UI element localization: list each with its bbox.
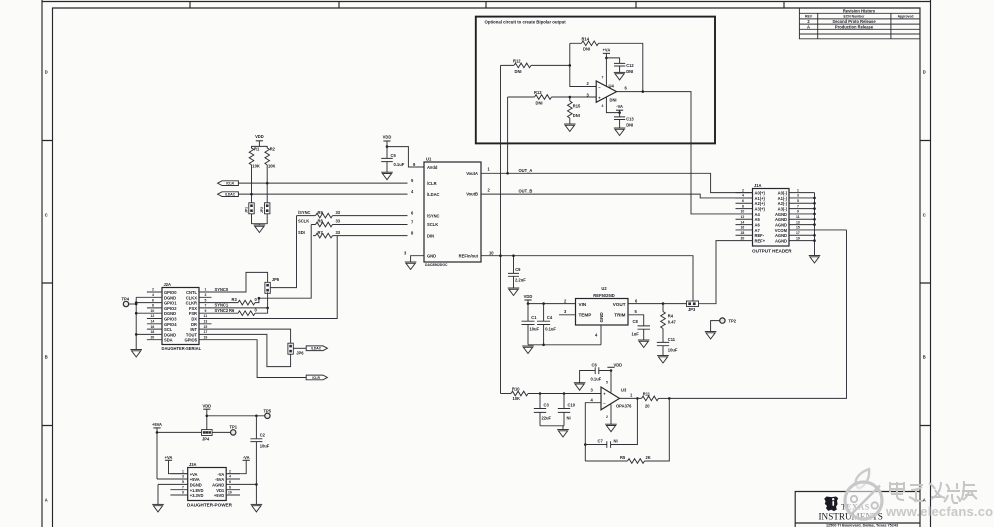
wire JP3 to REF+ pin20 — [699, 241, 736, 304]
junction feedback output — [642, 90, 645, 93]
resistor R9 33 — [297, 210, 408, 218]
svg-text:DNI: DNI — [583, 47, 590, 52]
svg-text:VIN: VIN — [579, 302, 587, 307]
svg-text:20: 20 — [741, 236, 745, 240]
svg-text:REF5025ID: REF5025ID — [593, 293, 614, 298]
svg-text:10: 10 — [741, 210, 745, 214]
svg-text:5: 5 — [797, 199, 799, 203]
ground below C1 — [522, 346, 534, 354]
svg-text:5: 5 — [182, 480, 184, 484]
svg-text:15: 15 — [204, 325, 208, 329]
svg-text:2: 2 — [606, 415, 608, 419]
svg-text:A: A — [807, 24, 810, 29]
svg-text:16: 16 — [741, 226, 745, 230]
svg-text:JP3: JP3 — [688, 307, 696, 312]
svg-text:A7: A7 — [755, 228, 761, 233]
resistor R6 0 — [212, 308, 268, 316]
svg-text:R12: R12 — [513, 59, 521, 64]
wire R13 riser down to OUT_A — [507, 97, 509, 173]
J1A left pin labels — [755, 191, 766, 244]
U3 inverting feedback riser — [585, 403, 601, 461]
svg-text:TP1: TP1 — [230, 424, 238, 429]
svg-text:A4: A4 — [755, 212, 761, 217]
wire VDD branch to U1 AVdd pin 9 — [387, 147, 424, 167]
J3A right pin stubs — [226, 474, 256, 495]
svg-text:4: 4 — [229, 475, 231, 479]
svg-text:14: 14 — [151, 320, 155, 324]
svg-text:33: 33 — [336, 219, 341, 224]
junction R12 inverting node — [569, 64, 572, 67]
svg-text:+VA: +VA — [190, 472, 198, 477]
wire inverting node riser — [570, 43, 596, 86]
resistor R5 2K feedback — [585, 398, 669, 463]
svg-text:C5: C5 — [391, 153, 397, 158]
svg-text:8: 8 — [742, 204, 744, 208]
junction VDD / C5 — [386, 145, 389, 148]
svg-text:10uF: 10uF — [668, 348, 678, 353]
U2 pin numbers — [564, 298, 638, 337]
svg-text:-VA: -VA — [243, 455, 250, 460]
resistor R2 — [265, 147, 276, 169]
svg-text:A0(+): A0(+) — [755, 191, 766, 196]
net flag /CLR (output) — [306, 375, 327, 380]
header J2A DAUGHTER-SERIAL body — [162, 282, 202, 351]
svg-text:/LDAC: /LDAC — [225, 193, 236, 197]
resistor R15 DNI to ground — [568, 97, 582, 124]
test point TP1 — [230, 424, 238, 435]
junction R11 R5 — [668, 397, 671, 400]
output header J1A body — [752, 183, 792, 254]
J2A DGND bus — [135, 297, 137, 349]
svg-text:R5: R5 — [620, 455, 626, 460]
svg-text:3: 3 — [182, 475, 184, 479]
ground below R15 — [564, 124, 576, 132]
svg-text:10K: 10K — [252, 163, 260, 168]
wire R12 riser down to REFin and R10 — [500, 65, 502, 393]
svg-text:/LDAC: /LDAC — [311, 347, 322, 351]
wire /CLR flag to U1 pin5 — [238, 182, 407, 184]
svg-text:J2A: J2A — [164, 282, 172, 287]
svg-text:16: 16 — [151, 325, 155, 329]
junction +5VA JP4 — [156, 431, 159, 434]
svg-text:+1.8VD: +1.8VD — [190, 488, 204, 493]
svg-text:OUTPUT HEADER: OUTPUT HEADER — [752, 249, 792, 254]
svg-text:2: 2 — [742, 188, 744, 192]
svg-text:REFin/out: REFin/out — [459, 253, 479, 258]
svg-text:FSR: FSR — [189, 311, 197, 316]
svg-text:10uF: 10uF — [260, 444, 270, 449]
header J3A DAUGHTER-POWER body — [187, 462, 233, 508]
svg-text:R2: R2 — [270, 147, 276, 152]
watermark leaf logo — [845, 469, 882, 519]
svg-text:/CLR: /CLR — [226, 182, 234, 186]
U3 positive supply wire — [610, 371, 612, 393]
svg-text:+5VD: +5VD — [214, 493, 224, 498]
VDD power symbol above R1 R2 — [255, 134, 264, 146]
junction VDD C6 — [610, 369, 613, 372]
svg-text:1: 1 — [205, 288, 207, 292]
J1A right pin labels — [775, 191, 788, 244]
jumper JP2 — [260, 203, 270, 214]
svg-text:9: 9 — [797, 210, 799, 214]
svg-text:10: 10 — [489, 251, 494, 256]
svg-text:REF-: REF- — [755, 233, 765, 238]
svg-text:7: 7 — [182, 485, 184, 489]
svg-text:4: 4 — [742, 194, 744, 198]
resistor R3 0 — [212, 225, 312, 305]
svg-text:GPIO0: GPIO0 — [164, 290, 177, 295]
ground below JP1 JP2 — [254, 225, 266, 233]
svg-text:DX: DX — [191, 317, 197, 322]
wire JP4 to TP1 — [212, 431, 230, 433]
svg-text:GPIO3: GPIO3 — [164, 317, 177, 322]
junction C1 — [527, 302, 530, 305]
junction +VA branch — [605, 57, 608, 60]
svg-text:R11: R11 — [643, 392, 651, 397]
U1 GND pin3 wire and ground — [411, 256, 424, 262]
ground below DGND bus — [130, 350, 142, 358]
svg-text:DNI: DNI — [626, 69, 633, 74]
svg-text:B: B — [923, 355, 926, 360]
ground below J1A bus — [809, 256, 821, 264]
svg-text:GPIO5: GPIO5 — [184, 338, 197, 343]
wire TOUT staircase to JP6 bottom — [212, 334, 291, 366]
wire +5VA to JP4 — [157, 431, 202, 433]
svg-text:20: 20 — [151, 335, 155, 339]
TI logo bug — [824, 497, 838, 512]
test point TP5 — [264, 408, 272, 418]
svg-text:D: D — [923, 70, 926, 75]
jumper JP6 — [288, 343, 304, 355]
svg-text:NI: NI — [567, 416, 571, 421]
svg-text:-5VA: -5VA — [215, 477, 224, 482]
U2 TEMP stub — [559, 314, 576, 316]
svg-text:+VA: +VA — [165, 455, 173, 460]
svg-text:A6: A6 — [755, 223, 761, 228]
J3A left pin stubs — [157, 474, 188, 495]
revision history table — [799, 8, 920, 39]
junction C10 — [563, 392, 566, 395]
J2A left pin numbers — [151, 288, 155, 340]
svg-text:DIN: DIN — [427, 233, 434, 238]
svg-text:Approved: Approved — [898, 15, 914, 19]
capacitor C12 DNI — [606, 58, 634, 74]
svg-text:ECN Number: ECN Number — [844, 15, 866, 19]
VDD power symbol at U3 — [607, 362, 622, 367]
watermark chinese characters — [890, 481, 977, 503]
resistor R10 10K — [511, 387, 601, 401]
svg-text:SDA: SDA — [164, 338, 173, 343]
svg-text:SYNC1: SYNC1 — [215, 303, 229, 308]
capacitor C1 10uF — [522, 304, 540, 345]
svg-text:11: 11 — [796, 215, 800, 219]
svg-text:OUT_A: OUT_A — [519, 168, 533, 173]
junction TP4 bus — [135, 303, 138, 306]
svg-text:DNI: DNI — [515, 69, 522, 74]
svg-text:10: 10 — [151, 309, 155, 313]
svg-text:AGND: AGND — [775, 217, 787, 222]
svg-text:JP6: JP6 — [296, 351, 304, 356]
svg-text:R13: R13 — [534, 90, 542, 95]
resistor R8 33 — [311, 219, 407, 227]
svg-text:NI: NI — [614, 439, 618, 444]
ground below C5 — [381, 172, 393, 180]
svg-text:10uF: 10uF — [530, 327, 540, 332]
svg-text:+3.3VD: +3.3VD — [190, 493, 204, 498]
svg-text:JP5: JP5 — [272, 277, 280, 282]
svg-text:C2: C2 — [260, 433, 266, 438]
svg-text:22uF: 22uF — [542, 416, 552, 421]
svg-text:VDD: VDD — [202, 404, 211, 409]
svg-text:C11: C11 — [668, 337, 676, 342]
sheet outer border right line — [930, 0, 932, 527]
ground rail below C3 C10 — [540, 426, 564, 430]
svg-text:14: 14 — [741, 220, 745, 224]
U2 VOUT wire to JP3 — [628, 303, 687, 305]
U2 TRIM wire to C8 — [628, 315, 644, 326]
top zone tick 3 — [485, 2, 487, 9]
svg-text:DGND: DGND — [164, 332, 176, 337]
ground below C12 — [614, 72, 626, 80]
svg-text:U1: U1 — [426, 157, 432, 162]
svg-text:R15: R15 — [573, 103, 581, 108]
svg-text:R3: R3 — [232, 297, 238, 302]
svg-text:U3: U3 — [621, 388, 627, 393]
svg-text:C1: C1 — [531, 315, 537, 320]
jumper JP1 — [244, 203, 254, 214]
junction VOUT R4 — [662, 302, 665, 305]
J1A ground bus — [814, 193, 816, 256]
svg-text:A1(+): A1(+) — [755, 196, 766, 201]
resistor R1 — [249, 147, 260, 169]
svg-text:C7: C7 — [598, 439, 604, 444]
svg-text:INT: INT — [190, 327, 197, 332]
svg-text:SCLK: SCLK — [298, 219, 309, 224]
DGND bus junctions — [135, 301, 138, 335]
svg-text:1uF: 1uF — [632, 332, 640, 337]
wire JP5 bottom to FSX node — [267, 292, 269, 308]
svg-text:VD1: VD1 — [216, 488, 225, 493]
svg-text:4: 4 — [152, 293, 154, 297]
svg-text:R10: R10 — [512, 387, 520, 392]
svg-text:7: 7 — [205, 304, 207, 308]
ground below DGND — [152, 504, 164, 512]
J2A right pin stubs — [199, 292, 268, 340]
capacitor C9 2.2uF — [508, 256, 526, 288]
junction U3 output — [636, 397, 639, 400]
IC U2 REF5025ID body — [576, 286, 629, 325]
svg-text:6: 6 — [152, 298, 154, 302]
svg-text:FSX: FSX — [189, 306, 197, 311]
svg-text:A3(-): A3(-) — [778, 207, 788, 212]
svg-text:www.elecfans.com: www.elecfans.com — [885, 504, 994, 519]
capacitor C4 0.1uF — [537, 304, 556, 345]
capacitor C3 22uF — [534, 394, 552, 426]
svg-text:1: 1 — [182, 469, 184, 473]
svg-text:C12: C12 — [626, 63, 634, 68]
svg-text:2: 2 — [229, 469, 231, 473]
svg-text:AGND: AGND — [775, 239, 787, 244]
op-amp U4 — [587, 76, 628, 109]
VDD power symbol at C5 — [383, 134, 392, 146]
VDD power symbol at JP4 — [202, 404, 211, 430]
resistor R7 33 — [313, 230, 408, 238]
svg-text:B: B — [45, 355, 48, 360]
J2A left pin stubs — [136, 292, 162, 340]
svg-text:CNTL: CNTL — [186, 290, 197, 295]
svg-text:AVdd: AVdd — [427, 165, 438, 170]
svg-text:VOUT: VOUT — [613, 302, 626, 307]
net flag /LDAC (input) — [218, 192, 239, 197]
svg-text:JP4: JP4 — [202, 436, 210, 441]
svg-text:+5VA: +5VA — [190, 477, 200, 482]
capacitor C7 NI — [585, 398, 637, 448]
svg-text:+5VA: +5VA — [152, 422, 162, 427]
svg-text:20: 20 — [645, 404, 650, 409]
svg-text:+VA: +VA — [603, 48, 611, 53]
svg-text:A1(-): A1(-) — [778, 196, 788, 201]
junction AGND C2 column — [255, 483, 258, 486]
svg-text:Optional circuit to create Bip: Optional circuit to create Bipolar outpu… — [485, 20, 567, 25]
svg-text:/LDAC: /LDAC — [427, 192, 440, 197]
top zone tick 1 — [189, 2, 191, 9]
svg-text:2: 2 — [152, 288, 154, 292]
svg-text:1: 1 — [797, 188, 799, 192]
svg-text:7: 7 — [797, 204, 799, 208]
svg-text:2.2uF: 2.2uF — [515, 278, 526, 283]
svg-text:A2(+): A2(+) — [755, 201, 766, 206]
U1 left pin labels — [427, 165, 440, 259]
svg-text:17: 17 — [796, 231, 800, 235]
junction R2 /CLR — [266, 182, 269, 185]
U1 pin numbers — [404, 162, 494, 256]
svg-text:C4: C4 — [547, 315, 553, 320]
J1A bus junctions — [813, 197, 816, 242]
svg-text:19: 19 — [204, 335, 208, 339]
svg-text:AGND: AGND — [775, 233, 787, 238]
svg-text:SCLK: SCLK — [427, 222, 438, 227]
junction FSX JP5 R6 — [266, 307, 269, 310]
U1 right pin labels — [459, 171, 479, 258]
svg-text:10K: 10K — [513, 396, 521, 401]
wire JP6 to /LDAC flag — [293, 347, 306, 349]
svg-text:9: 9 — [182, 491, 184, 495]
-VA power symbol — [226, 455, 250, 474]
svg-text:DNI: DNI — [573, 113, 580, 118]
top zone tick 5 — [783, 2, 785, 9]
svg-text:GPIO1: GPIO1 — [164, 301, 177, 306]
+VA power symbol — [603, 48, 611, 87]
svg-text:TEMP: TEMP — [579, 313, 592, 318]
svg-text:VoutB: VoutB — [466, 192, 478, 197]
svg-text:DNI: DNI — [536, 100, 543, 105]
sheet outer border top line — [42, 1, 931, 3]
ground below C3 C10 — [557, 430, 569, 438]
junction R3 jog — [258, 297, 261, 300]
svg-text:R14: R14 — [582, 37, 590, 42]
wire VDD to TP5 — [207, 415, 265, 417]
svg-text:-VA: -VA — [217, 472, 224, 477]
svg-text:C9: C9 — [515, 267, 521, 272]
wire DX to SDI riser — [212, 236, 338, 319]
svg-text:R9: R9 — [318, 210, 324, 215]
resistor R11 20 — [642, 392, 670, 409]
svg-text:R8: R8 — [318, 219, 324, 224]
svg-text:J3A: J3A — [189, 462, 197, 467]
svg-text:15: 15 — [796, 226, 800, 230]
J3A right pin labels — [212, 472, 225, 498]
svg-text:AGND: AGND — [775, 212, 787, 217]
J1A right pin stubs — [789, 193, 847, 241]
J1A left pin numbers — [741, 188, 745, 240]
svg-text:GND: GND — [599, 312, 604, 323]
test point TP4 — [122, 297, 137, 307]
svg-text:C: C — [923, 213, 926, 218]
svg-text:7: 7 — [602, 76, 604, 80]
svg-text:0.47: 0.47 — [668, 320, 677, 325]
jumper JP5 — [265, 277, 280, 294]
jumper JP4 — [202, 430, 213, 442]
junction C2 — [255, 415, 258, 418]
svg-text:C3: C3 — [544, 403, 550, 408]
junction C3 — [539, 392, 542, 395]
J3A left pin numbers — [182, 469, 184, 494]
junction C4 — [542, 302, 545, 305]
svg-text:A2(-): A2(-) — [778, 201, 788, 206]
J1A left pin stubs — [736, 193, 753, 241]
svg-text:Revision History: Revision History — [843, 8, 876, 13]
svg-text:0.1uF: 0.1uF — [591, 377, 602, 382]
svg-text:R6: R6 — [229, 308, 235, 313]
svg-text:AGND: AGND — [775, 223, 787, 228]
J2A right pin labels — [184, 290, 197, 343]
svg-text:AGND: AGND — [212, 483, 224, 488]
wire /LDAC flag to U1 pin4 — [238, 193, 407, 195]
svg-text:VoutA: VoutA — [466, 171, 478, 176]
svg-text:C10: C10 — [568, 403, 576, 408]
svg-text:U4: U4 — [609, 84, 615, 89]
svg-text:DGND: DGND — [164, 295, 176, 300]
wire INT to JP6 top — [212, 329, 291, 343]
svg-text:GND: GND — [427, 253, 436, 258]
VCOM loop wire — [669, 230, 846, 398]
svg-text:DR: DR — [191, 322, 197, 327]
svg-text:17: 17 — [204, 330, 208, 334]
capacitor C10 NI — [558, 394, 576, 426]
resistor R13 DNI — [508, 90, 597, 105]
wire SYNC0 to JP5 — [212, 272, 268, 292]
svg-text:13: 13 — [796, 220, 800, 224]
wire GPIO5 to /CLR flag — [212, 340, 307, 378]
ground below C2 — [251, 504, 263, 512]
ground below C9 — [508, 288, 520, 296]
svg-text:11: 11 — [204, 314, 208, 318]
svg-text:DNI: DNI — [626, 122, 633, 127]
svg-text:10: 10 — [228, 491, 232, 495]
capacitor C5 0.1uF — [381, 147, 404, 173]
svg-text:OUT_B: OUT_B — [519, 188, 533, 193]
svg-text:33: 33 — [336, 210, 341, 215]
svg-text:A5: A5 — [755, 217, 761, 222]
svg-text:A3(+): A3(+) — [755, 207, 766, 212]
svg-text:CLKR: CLKR — [186, 301, 197, 306]
svg-text:33: 33 — [336, 230, 341, 235]
ground below C13 — [614, 128, 626, 136]
svg-text:TRIM: TRIM — [614, 313, 625, 318]
svg-text:R4: R4 — [668, 314, 674, 319]
sheet outer border left line — [41, 0, 43, 527]
ground below C8 — [638, 340, 650, 348]
